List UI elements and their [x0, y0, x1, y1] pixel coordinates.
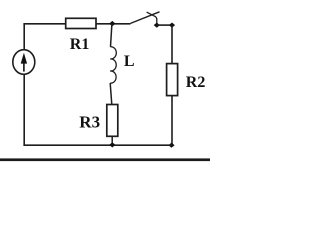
corner dot bottom right: [168, 143, 174, 148]
bottom wire: [23, 144, 171, 146]
wire top-left horizontal: [23, 23, 65, 25]
wire R3 to bottom: [111, 136, 113, 145]
switch right terminal dot: [154, 23, 160, 28]
wire switch to corner: [157, 24, 172, 26]
corner dot top right: [169, 23, 175, 28]
wire R1 to node A: [96, 23, 131, 25]
switch S contact post with cross: [147, 12, 157, 25]
wire down to R2: [171, 25, 173, 64]
current source arrow shaft: [23, 62, 25, 72]
wire left bottom vertical: [23, 74, 25, 146]
svg-text:L: L: [124, 53, 135, 70]
node A junction dot: [109, 21, 115, 26]
resistor R1: [66, 18, 96, 28]
bottom junction dot: [109, 142, 115, 147]
wire R2 to bottom: [171, 96, 173, 146]
wire coil to R3: [110, 83, 112, 104]
inductor L coil: [110, 47, 116, 83]
resistor R3: [107, 105, 118, 137]
current source arrow head: [21, 53, 27, 64]
switch S blade: [131, 12, 160, 24]
current source J circle: [13, 50, 35, 75]
bottom separator bar: [0, 158, 210, 161]
wire node A down to coil: [111, 24, 112, 47]
svg-text:R1: R1: [70, 36, 90, 53]
wire left top vertical: [23, 24, 25, 51]
svg-text:R3: R3: [79, 112, 100, 131]
svg-text:R2: R2: [186, 74, 206, 91]
resistor R2: [167, 64, 178, 96]
